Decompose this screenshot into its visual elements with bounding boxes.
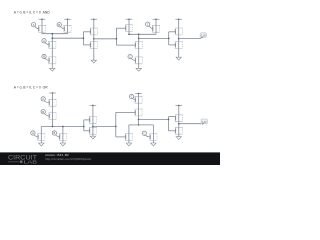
svg-text:A = 0, B = 0, C = 0 OR: A = 0, B = 0, C = 0 OR — [14, 86, 48, 90]
svg-text:B: B — [54, 131, 56, 135]
svg-text:A: A — [43, 39, 45, 43]
svg-text:A: A — [32, 131, 34, 135]
svg-text:C: C — [131, 95, 133, 99]
svg-text:A: A — [42, 97, 44, 101]
svg-text:A = 0, B = 0, C = 0 AND: A = 0, B = 0, C = 0 AND — [14, 11, 50, 15]
svg-text:C: C — [129, 55, 131, 59]
svg-text:B: B — [43, 55, 45, 59]
svg-text:A: A — [33, 23, 35, 27]
svg-text:B: B — [42, 110, 44, 114]
svg-text:LAB: LAB — [24, 159, 37, 164]
svg-text:http://circuitlab.com/c/5p56h5: http://circuitlab.com/c/5p56h5tjxkckz — [45, 157, 92, 161]
svg-text:B: B — [58, 23, 60, 27]
svg-text:C: C — [147, 22, 149, 26]
svg-text:0.00: 0.00 — [202, 120, 208, 124]
svg-text:C: C — [143, 131, 145, 135]
svg-text:0.00: 0.00 — [201, 34, 207, 38]
